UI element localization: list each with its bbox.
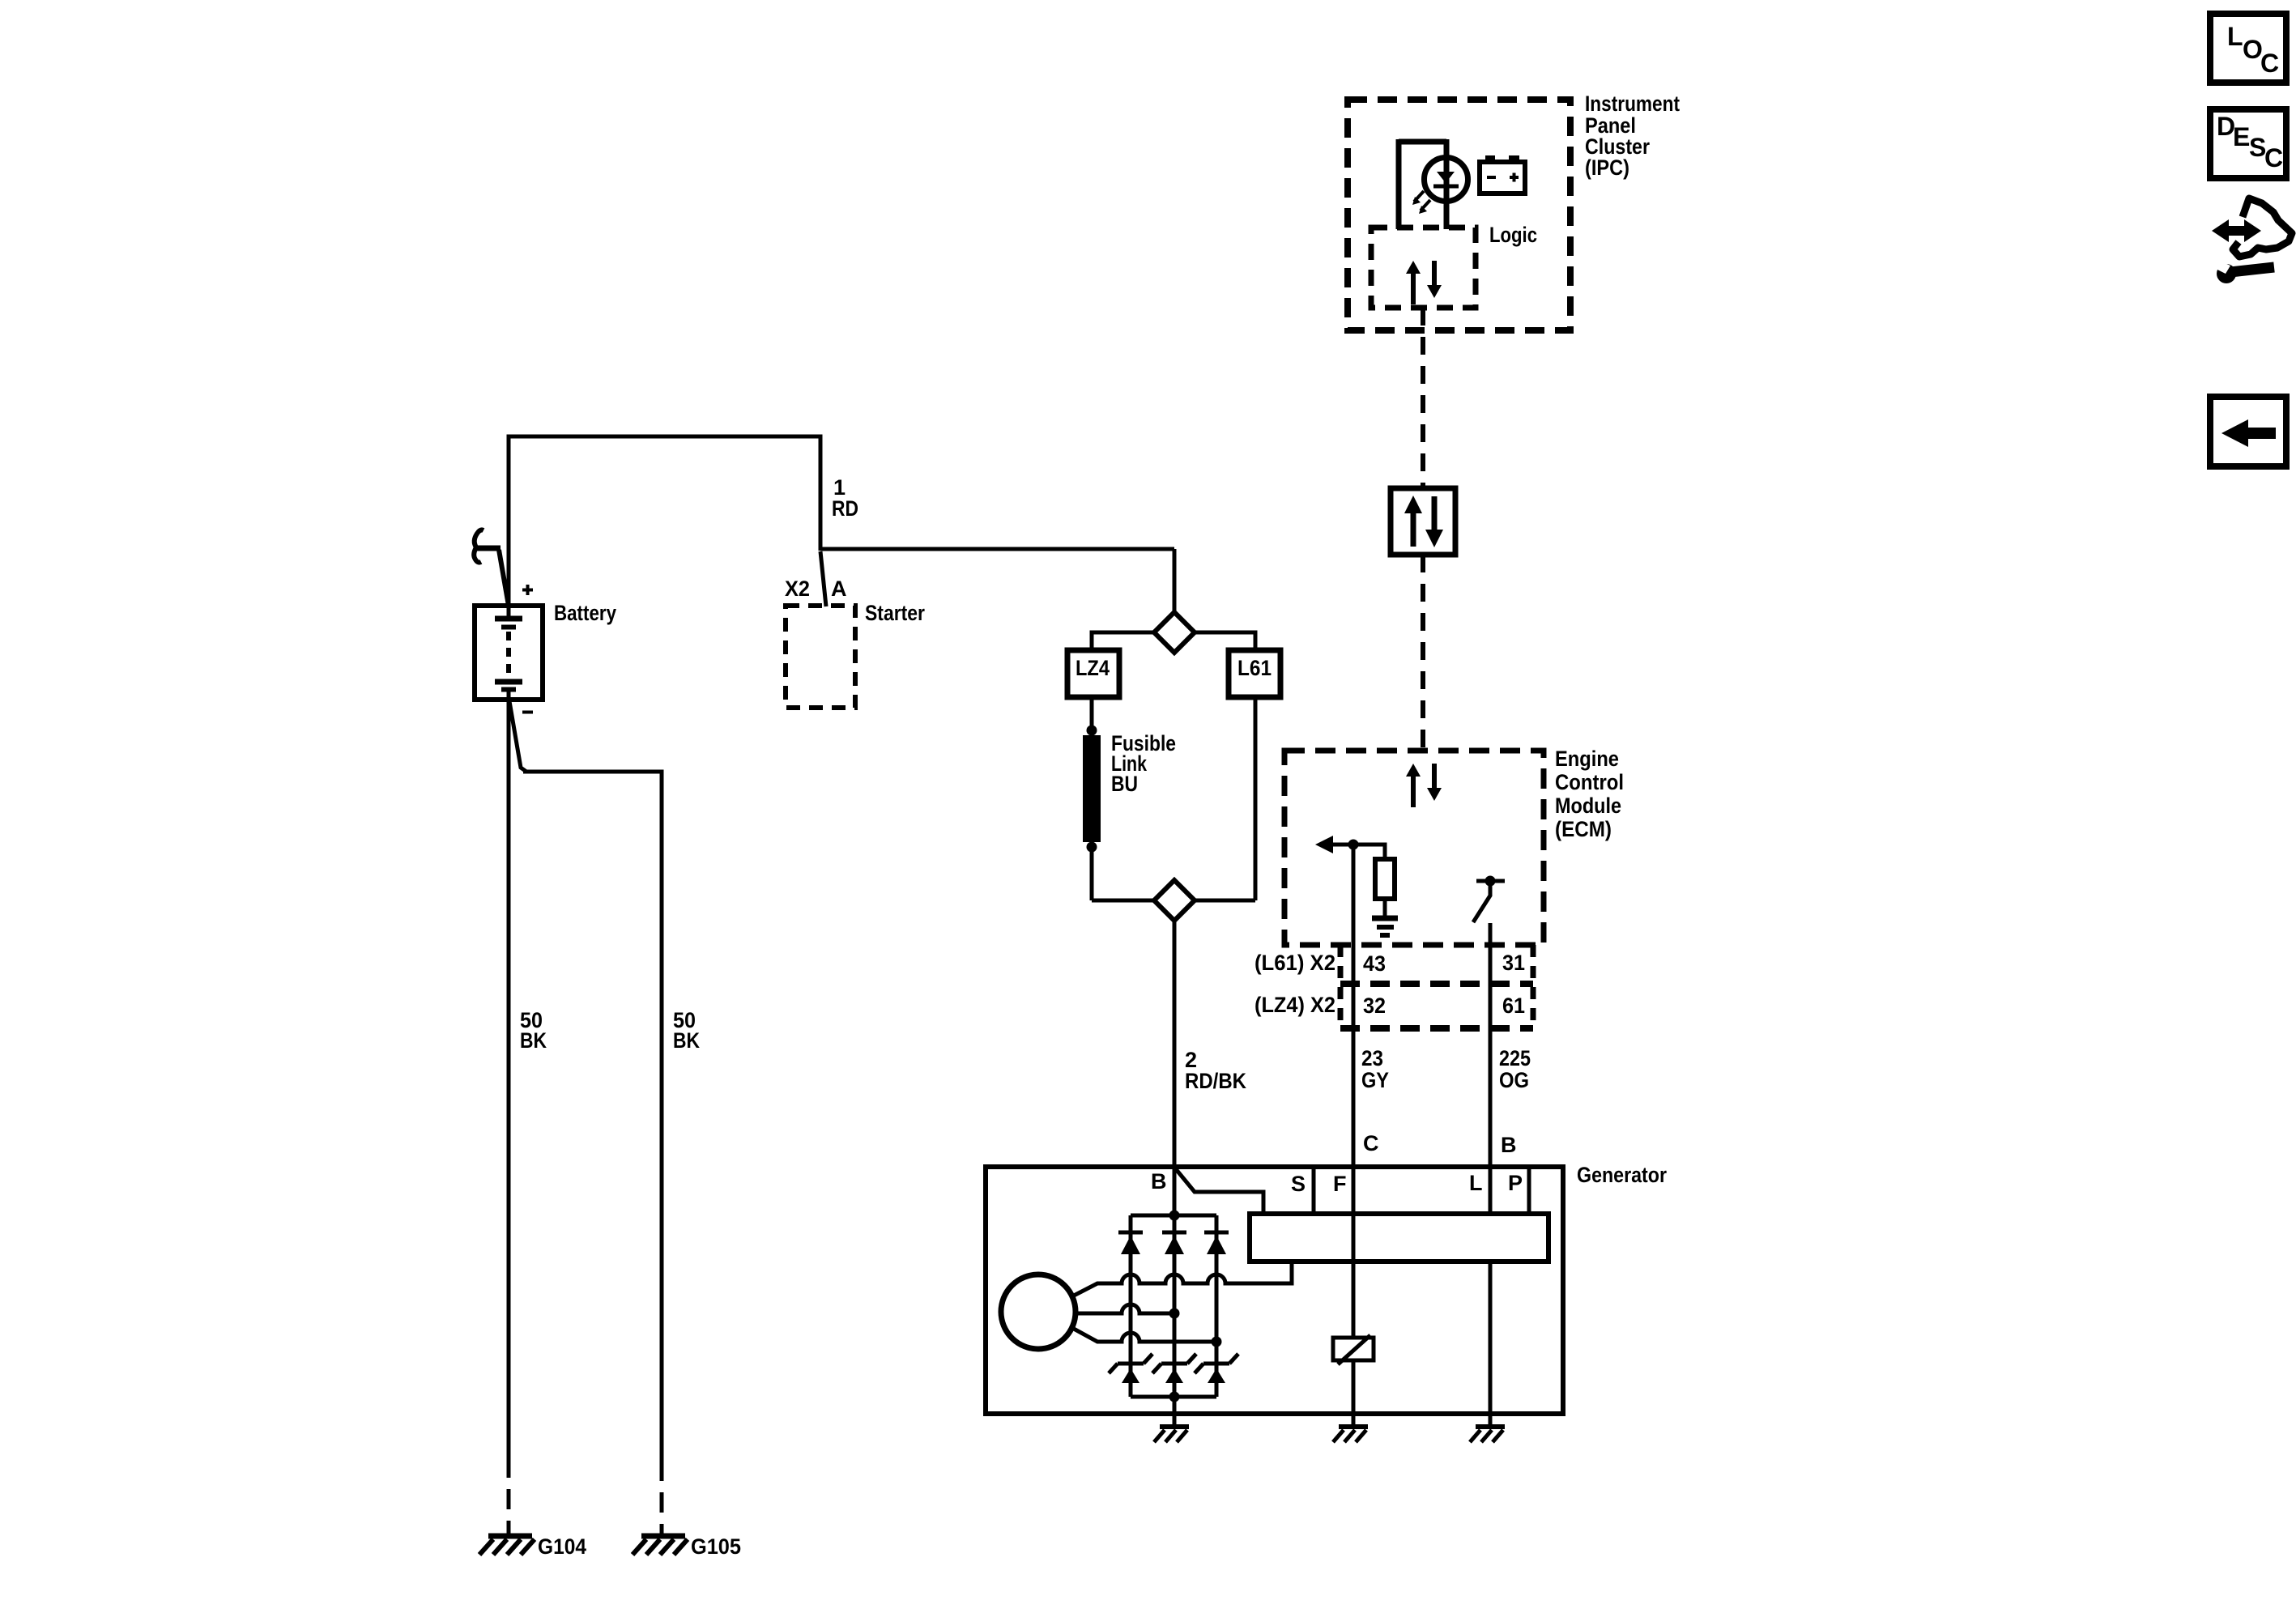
svg-text:Starter: Starter — [865, 601, 925, 625]
ECM label — [1555, 747, 1624, 841]
serial data arrows in Logic box — [1406, 261, 1442, 304]
diode D3 — [1204, 1232, 1229, 1254]
Engine Control Module (ECM) dashed box — [1284, 751, 1544, 945]
generator internal ground 1 — [1154, 1427, 1189, 1442]
wire horizontal to splice — [820, 547, 1174, 551]
svg-text:L61: L61 — [1237, 656, 1272, 680]
svg-text:Engine: Engine — [1555, 747, 1619, 771]
dashed serial data wire to ECM — [1421, 555, 1425, 751]
svg-text:31: 31 — [1502, 951, 1525, 975]
battery positive slant lead — [499, 550, 509, 606]
terminal divider right of P — [1527, 1167, 1531, 1214]
svg-text:C: C — [2264, 143, 2283, 172]
junction node phase 2 — [1169, 1308, 1180, 1319]
battery negative slant lead — [509, 701, 526, 772]
svg-text:(ECM): (ECM) — [1555, 817, 1612, 841]
svg-text:BK: BK — [520, 1028, 547, 1053]
junction node above fusible link — [1087, 726, 1097, 736]
svg-text:G104: G104 — [538, 1534, 586, 1559]
battery minus sign — [522, 711, 533, 714]
svg-text:32: 32 — [1363, 994, 1386, 1018]
svg-text:Battery: Battery — [554, 601, 616, 625]
generator internal ground 2 — [1333, 1427, 1368, 1442]
svg-text:G105: G105 — [691, 1534, 741, 1559]
svg-text:BK: BK — [673, 1028, 700, 1053]
wire label 23 GY — [1361, 1046, 1389, 1092]
wire C to ground — [1352, 1360, 1356, 1425]
resistor in ECM — [1375, 859, 1395, 899]
svg-text:L: L — [2227, 22, 2243, 51]
junction node below fusible link — [1087, 842, 1097, 853]
svg-text:(L61) X2: (L61) X2 — [1254, 951, 1335, 975]
wire 50 BK left — [507, 708, 511, 1535]
svg-text:BU: BU — [1111, 772, 1138, 796]
indicator lamp circuit loop — [1399, 139, 1446, 229]
svg-text:23: 23 — [1361, 1046, 1383, 1070]
stator winding circle — [1001, 1274, 1076, 1349]
svg-text:Control: Control — [1555, 770, 1624, 794]
svg-text:S: S — [1291, 1172, 1306, 1196]
diode D2 — [1162, 1232, 1186, 1254]
svg-text:X2: X2 — [785, 577, 810, 601]
wire 23 GY from ECM pin to generator C — [1352, 845, 1356, 1338]
DESC index box — [2210, 109, 2286, 178]
svg-text:P: P — [1508, 1171, 1523, 1195]
sense wire B to regulator — [1176, 1169, 1263, 1214]
svg-text:E: E — [2233, 122, 2250, 151]
junction node B top rail — [1169, 1211, 1180, 1221]
charge indicator LED lamp — [1412, 158, 1468, 215]
junction node phase 3 — [1212, 1337, 1222, 1347]
stator phase 2 wire — [1076, 1304, 1174, 1313]
junction node in ECM — [1348, 840, 1359, 850]
Logic dashed box — [1371, 228, 1476, 308]
svg-text:C: C — [1363, 1131, 1379, 1155]
wire bottom bus — [1092, 899, 1255, 903]
wire label 2 RD/BK — [1185, 1048, 1246, 1093]
Instrument Panel Cluster (IPC) dashed box — [1348, 100, 1570, 330]
wire L below regulator — [1489, 1262, 1493, 1425]
wire 50 BK right — [660, 770, 664, 1536]
earth ground in ECM — [1372, 918, 1398, 935]
svg-text:LZ4: LZ4 — [1076, 656, 1110, 680]
splice diamond bottom — [1154, 880, 1195, 921]
LOC index box — [2210, 14, 2286, 83]
rectifier column 3 — [1215, 1215, 1219, 1397]
wire label 1 RD — [832, 475, 858, 521]
ECM connector rows dashed box — [1340, 945, 1533, 1028]
wire splice vertical into top diamond — [1173, 549, 1177, 614]
field element on C wire — [1333, 1335, 1374, 1364]
battery box — [475, 606, 543, 700]
svg-text:RD: RD — [832, 496, 858, 521]
wire resistor to ground — [1383, 899, 1387, 916]
serial data connector box — [1391, 488, 1455, 555]
battery plus sign — [522, 585, 533, 595]
svg-text:GY: GY — [1361, 1068, 1389, 1092]
Starter dashed box — [786, 606, 855, 708]
dashed serial data wire IPC to connector — [1421, 308, 1425, 488]
svg-text:B: B — [1151, 1169, 1167, 1194]
wire diamond to LZ4 — [1092, 632, 1154, 650]
service repair icon (part outline, double arrow, wrench) — [2212, 198, 2292, 283]
splice diamond top — [1154, 612, 1195, 653]
serial data arrows in connector box — [1404, 496, 1443, 547]
svg-text:Module: Module — [1555, 794, 1621, 818]
stator phase 1 wire to regulator — [1072, 1263, 1292, 1296]
terminal divider S/F — [1312, 1167, 1316, 1214]
generator internal ground 3 — [1470, 1427, 1505, 1442]
wire top horizontal battery to starter — [507, 435, 821, 439]
svg-text:A: A — [831, 577, 847, 601]
diode D1 — [1118, 1232, 1143, 1254]
fusible link label — [1111, 731, 1176, 796]
battery cell plates — [495, 619, 522, 709]
ECM driver output arrow — [1315, 836, 1385, 859]
wire 225 OG from ECM pin to generator — [1489, 923, 1493, 1216]
voltage regulator bar — [1250, 1214, 1548, 1262]
wire battery positive vertical — [507, 436, 511, 616]
svg-text:Instrument: Instrument — [1585, 91, 1680, 116]
svg-text:F: F — [1333, 1172, 1347, 1196]
svg-text:Generator: Generator — [1577, 1163, 1667, 1187]
zener diode Z3 — [1195, 1354, 1238, 1383]
stator phase 3 wire — [1072, 1328, 1216, 1342]
battery symbol inside IPC — [1480, 155, 1525, 194]
svg-text:RD/BK: RD/BK — [1185, 1069, 1246, 1093]
connector row labels — [1254, 951, 1335, 1017]
svg-text:C: C — [2260, 49, 2279, 78]
switch in ECM — [1473, 876, 1505, 923]
svg-text:43: 43 — [1363, 951, 1386, 976]
fuse LZ4 box — [1067, 650, 1119, 697]
svg-text:61: 61 — [1502, 994, 1525, 1018]
svg-text:(LZ4) X2: (LZ4) X2 — [1254, 993, 1335, 1017]
wire 1 RD vertical — [819, 435, 823, 551]
battery positive cable hook — [474, 530, 483, 563]
fusible link BU element — [1083, 735, 1101, 842]
junction node B bottom rail — [1169, 1392, 1180, 1402]
IPC label — [1585, 91, 1680, 180]
wire label 225 OG — [1499, 1046, 1531, 1092]
wire label 50 BK right — [673, 1008, 700, 1053]
wire ground jog horizontal — [523, 770, 662, 774]
ground G104 — [479, 1536, 535, 1555]
svg-text:B: B — [1501, 1133, 1517, 1157]
svg-text:(IPC): (IPC) — [1585, 155, 1629, 180]
svg-text:L: L — [1469, 1171, 1483, 1195]
starter lead slant — [820, 551, 826, 606]
svg-text:225: 225 — [1499, 1046, 1531, 1070]
wire fusible link to bottom bus — [1090, 845, 1094, 900]
back arrow box — [2210, 397, 2286, 466]
wire 2 RD/BK to generator — [1173, 921, 1177, 1425]
rectifier column 1 — [1129, 1215, 1133, 1397]
wire L61 to bottom bus — [1254, 697, 1258, 900]
zener diode Z2 — [1152, 1354, 1196, 1383]
rectifier bottom rail — [1131, 1395, 1216, 1399]
ground G105 — [633, 1536, 688, 1555]
wire LZ4 to fusible link — [1090, 697, 1094, 730]
wire diamond to L61 — [1195, 632, 1255, 650]
zener diode Z1 — [1109, 1354, 1152, 1383]
serial data arrows in ECM — [1406, 764, 1442, 807]
rectifier top rail — [1131, 1214, 1216, 1218]
svg-text:Logic: Logic — [1489, 223, 1537, 247]
svg-text:OG: OG — [1499, 1068, 1529, 1092]
wire label 50 BK left — [520, 1008, 547, 1053]
Generator box — [986, 1167, 1563, 1414]
fuse L61 box — [1229, 650, 1280, 697]
wire C through regulator — [1352, 1167, 1356, 1338]
